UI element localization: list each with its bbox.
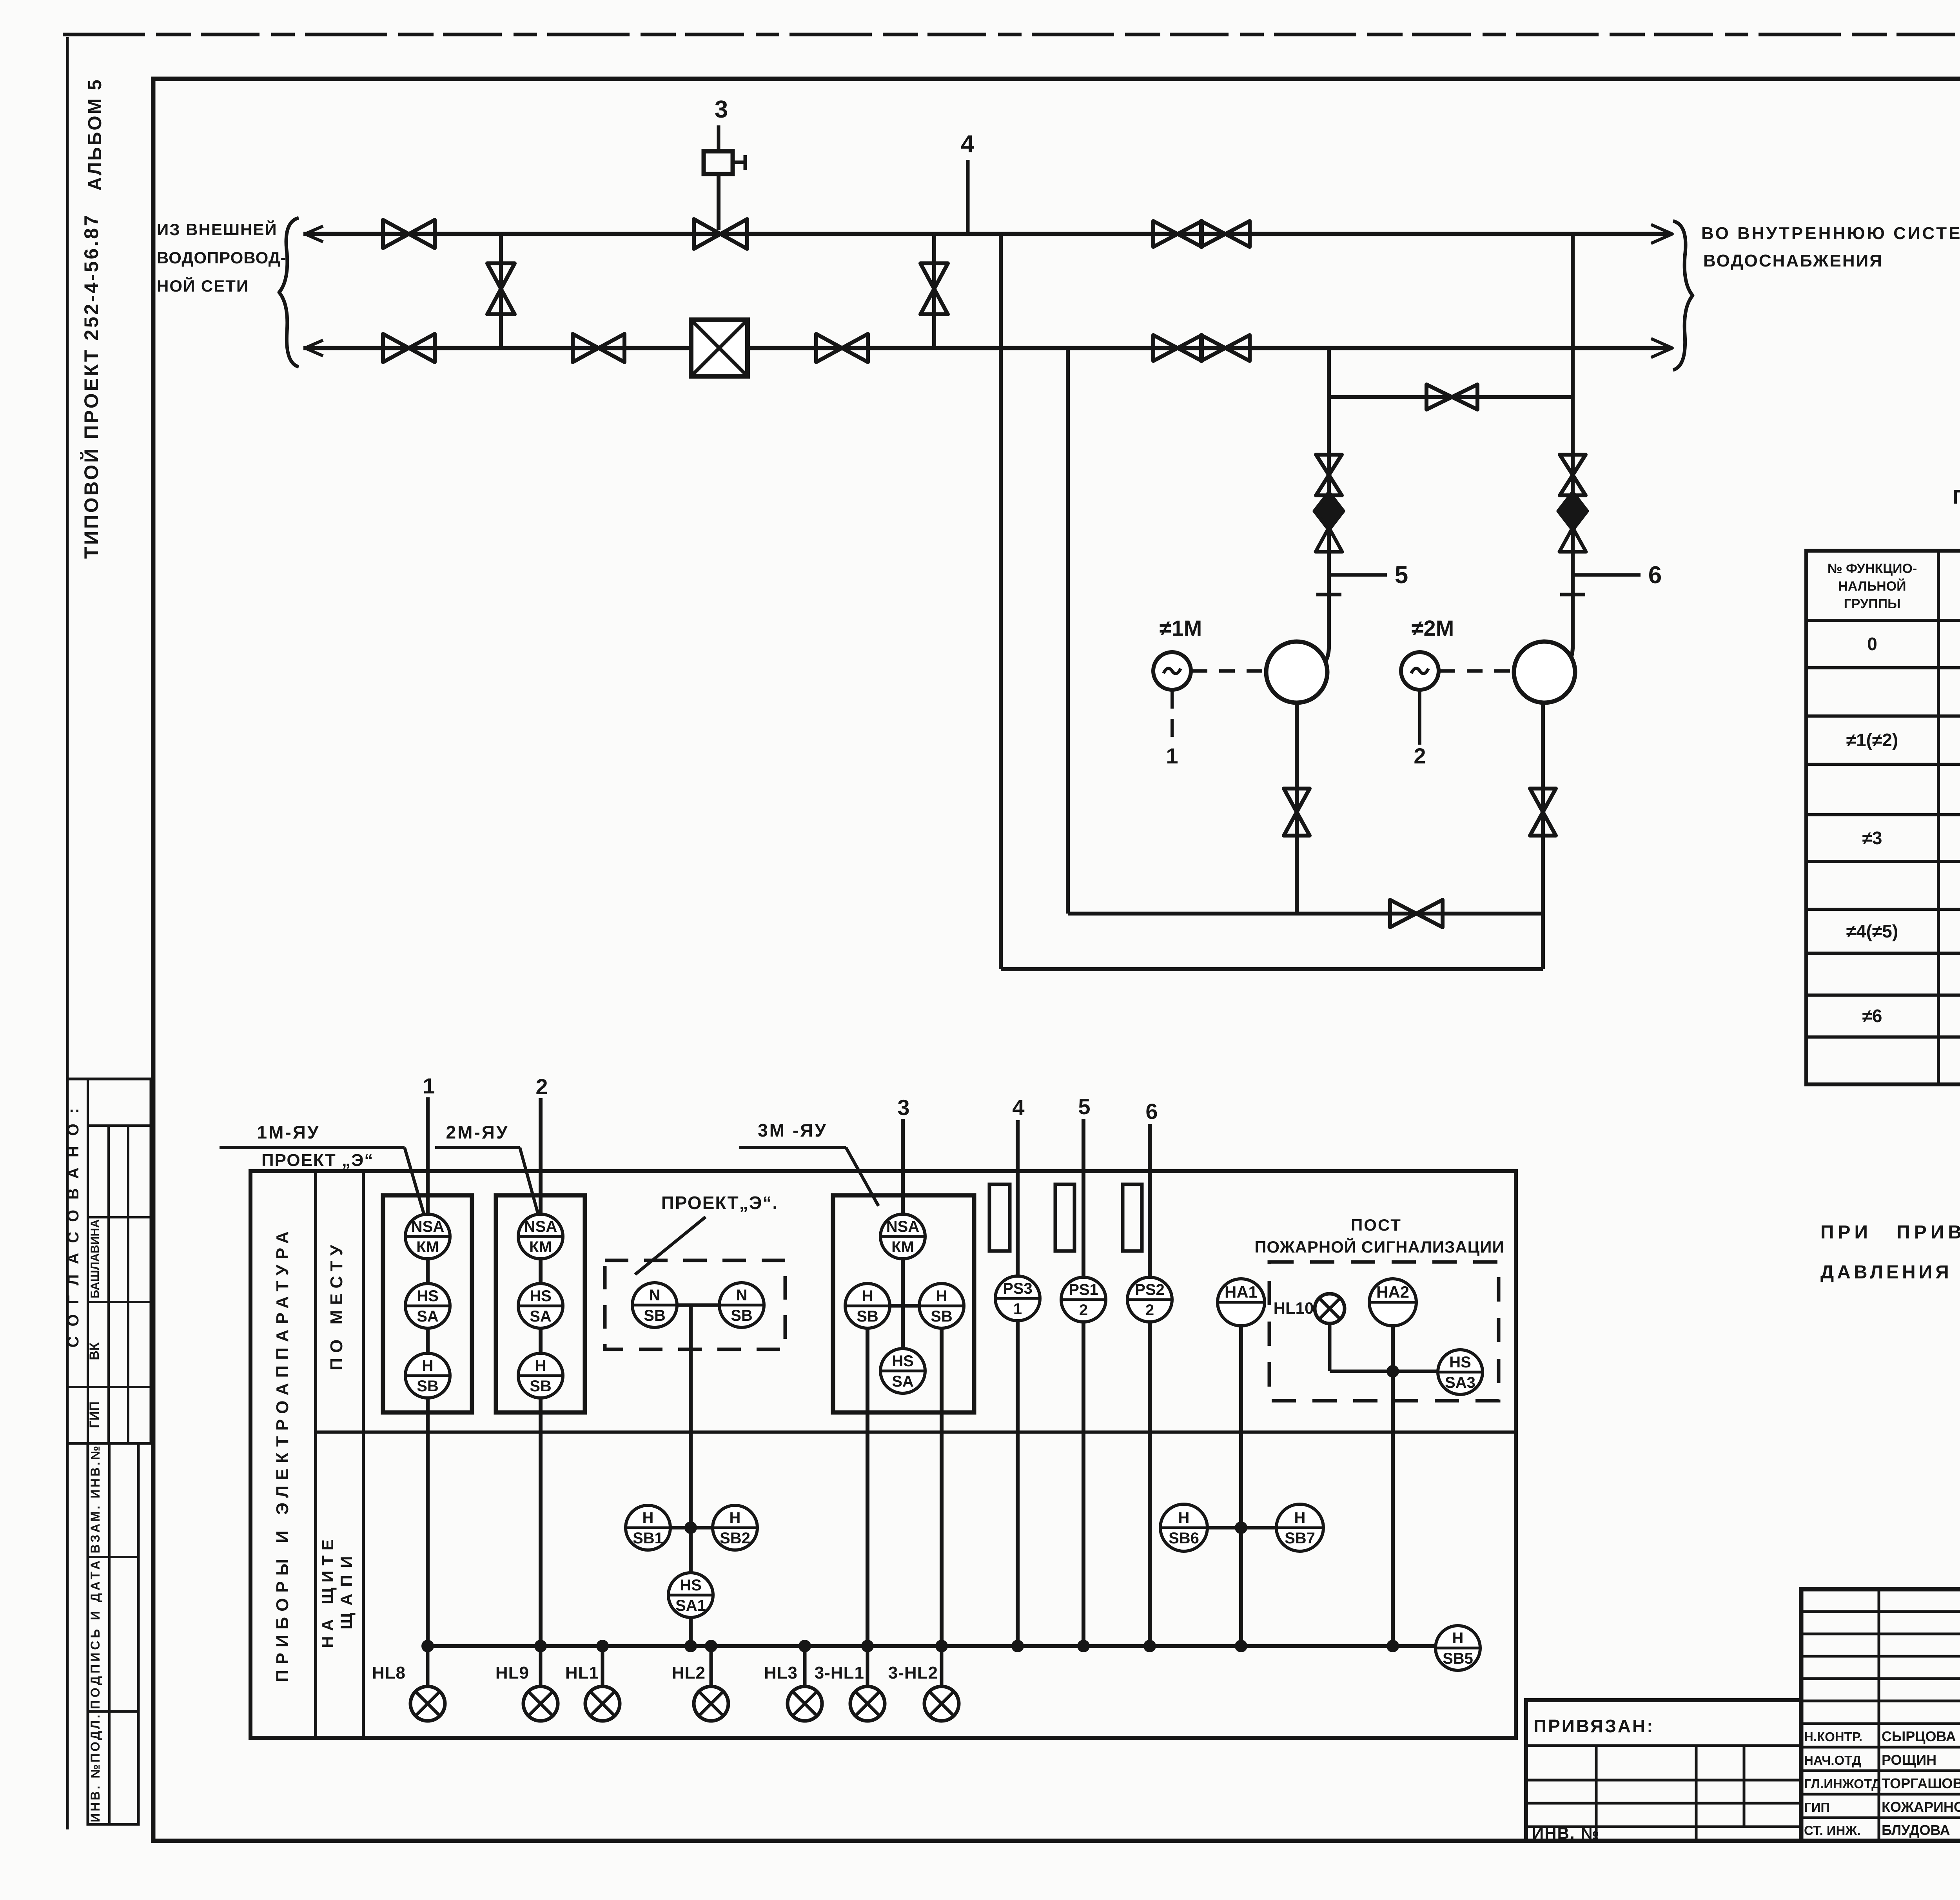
svg-text:Н: Н [936, 1287, 947, 1305]
instrument HSA KM box2 [518, 1214, 563, 1259]
svg-text:Н.КОНТР.: Н.КОНТР. [1804, 1730, 1862, 1744]
svg-text:SA1: SA1 [675, 1597, 706, 1614]
instrument HS SA box2 [518, 1284, 563, 1328]
instrument NSA KM box3 [880, 1214, 925, 1259]
svg-text:SB7: SB7 [1285, 1530, 1315, 1547]
svg-text:HL1: HL1 [565, 1663, 599, 1682]
pump1 inlet curve [1309, 647, 1329, 671]
wire line 6 [1148, 1124, 1152, 1646]
title narrow row 1 [1801, 1633, 1960, 1635]
title sig row line 1 [1801, 1769, 1960, 1772]
stamp col line b [107, 1126, 110, 1443]
junction dot bus x1379 [534, 1640, 547, 1652]
svg-text:HL8: HL8 [372, 1663, 406, 1682]
top pipe left arrow [305, 226, 323, 242]
svg-text:ИНВ. №ПОДЛ.: ИНВ. №ПОДЛ. [88, 1713, 102, 1822]
valve V5 bottom pipe after meter [816, 334, 868, 362]
wire motor2 to pump2 dashed [1439, 669, 1513, 673]
wire inner loop bottom horizontal [1068, 912, 1543, 916]
callout diagonal proekt E [635, 1217, 706, 1275]
functional table row line 4 [1806, 813, 1960, 816]
functional table row line 6 [1806, 908, 1960, 911]
junction dot bus x2213 [861, 1640, 874, 1652]
bypass wire between risers [1329, 395, 1573, 399]
functional table row line 8 [1806, 994, 1960, 997]
pump2 flange tick [1560, 593, 1585, 596]
svg-text:Н: Н [862, 1287, 873, 1305]
instrument table frame [250, 1171, 1516, 1738]
valve V12 pump1 outlet [1284, 789, 1310, 836]
svg-text:SA: SA [417, 1308, 439, 1325]
bottom pipe left arrow [305, 340, 323, 356]
wire 3-HL1 drop [866, 1328, 869, 1646]
svg-text:SB: SB [530, 1378, 552, 1395]
wire outer loop bottom horizontal [1001, 967, 1543, 971]
wire top pipe [303, 232, 1672, 236]
stamp row line 3 [88, 1301, 151, 1303]
svg-text:SB: SB [931, 1308, 953, 1325]
lamp HL9 [523, 1686, 558, 1721]
wire lamp riser HL1 [601, 1646, 604, 1686]
callout diagonal 3M [846, 1148, 878, 1206]
svg-text:1: 1 [423, 1073, 435, 1098]
svg-text:БЛУДОВА: БЛУДОВА [1882, 1822, 1950, 1838]
valve V13 on bypass [1426, 384, 1477, 410]
svg-text:SB: SB [644, 1307, 666, 1324]
svg-text:СТ. ИНЖ.: СТ. ИНЖ. [1804, 1823, 1860, 1838]
junction dot bus x2764 [1077, 1640, 1090, 1652]
lamp HL1 [585, 1686, 620, 1721]
svg-text:N: N [736, 1287, 748, 1304]
svg-text:ТИПОВОЙ ПРОЕКТ 252-4-56.87: ТИПОВОЙ ПРОЕКТ 252-4-56.87 [80, 213, 102, 559]
valve V14 pump2 outlet [1530, 789, 1556, 836]
stamp table 2 frame [88, 1443, 138, 1824]
wire outer loop vertical [999, 234, 1003, 969]
svg-text:КМ: КМ [416, 1238, 439, 1256]
valve V8 top pipe double right [1201, 221, 1250, 247]
wire between N SB buttons [677, 1304, 719, 1307]
svg-text:Н: Н [642, 1509, 654, 1527]
instrument H SB2 [713, 1505, 757, 1550]
wire pump2 outlet [1541, 703, 1545, 969]
right brace [1673, 221, 1693, 370]
svg-text:1: 1 [1013, 1300, 1022, 1318]
terminal strip line4 [989, 1184, 1010, 1251]
svg-text:ГЛ.ИНЖОТД: ГЛ.ИНЖОТД [1804, 1777, 1881, 1791]
svg-text:ПРОЕКТ „Э“: ПРОЕКТ „Э“ [261, 1151, 374, 1170]
svg-text:ВОДОПРОВОД-: ВОДОПРОВОД- [157, 248, 287, 267]
valve V1 top pipe inlet [383, 220, 435, 248]
wire HA1 drop [1239, 1326, 1243, 1646]
pump2 inlet curve [1553, 647, 1573, 671]
callout underline 2M [435, 1146, 520, 1149]
valve V11 on inner bottom horizontal [1390, 900, 1443, 927]
svg-text:БАШЛАВИНА: БАШЛАВИНА [89, 1219, 102, 1298]
svg-text:ГИП: ГИП [87, 1401, 102, 1428]
wire line 5 [1082, 1119, 1085, 1646]
svg-text:SA3: SA3 [1445, 1374, 1475, 1391]
valve V9 bottom pipe double left [1153, 335, 1202, 361]
wire motor1 to pump1 dashed [1192, 669, 1265, 673]
instrument H SB box1 [405, 1353, 450, 1398]
svg-text:6: 6 [1145, 1099, 1158, 1124]
instrument H SB box2 [518, 1353, 563, 1398]
svg-text:N: N [649, 1287, 661, 1304]
sheet top edge dashed line [63, 33, 1960, 36]
svg-text:ПРИБОРЫ И ЭЛЕКТРОАППАРАТУРА: ПРИБОРЫ И ЭЛЕКТРОАППАРАТУРА [273, 1226, 292, 1682]
svg-text:ГРУППЫ: ГРУППЫ [1844, 596, 1901, 611]
junction dot bus x1537 [596, 1640, 609, 1652]
svg-text:НАЧ.ОТД: НАЧ.ОТД [1804, 1753, 1861, 1768]
svg-text:HL2: HL2 [672, 1663, 706, 1682]
node 6 callout line [1573, 573, 1641, 577]
stamp col line c [127, 1126, 129, 1443]
junction dot bus x2596 [1011, 1640, 1024, 1652]
wire between SB1 SB2 [670, 1526, 713, 1530]
valve V10 bottom pipe double right [1201, 335, 1250, 361]
svg-text:ТОРГАШОВ: ТОРГАШОВ [1882, 1775, 1960, 1791]
svg-text:NSA: NSA [411, 1218, 444, 1235]
wire motor2 stub [1418, 691, 1421, 745]
instrument table col line 2 [362, 1171, 365, 1738]
svg-text:SB5: SB5 [1443, 1650, 1473, 1667]
svg-text:РОЩИН: РОЩИН [1882, 1752, 1936, 1768]
instrument HA2 [1369, 1279, 1416, 1326]
svg-text:КМ: КМ [529, 1238, 552, 1256]
valve V7 top pipe double left [1153, 221, 1202, 247]
lamp 3-НL1 [850, 1686, 885, 1721]
title sig row line 2 [1801, 1793, 1960, 1796]
lamp 3-НL2 [924, 1686, 959, 1721]
privyazan col a [1595, 1746, 1598, 1841]
svg-text:3: 3 [897, 1095, 909, 1120]
junction dot SA1 SB pair [684, 1521, 697, 1534]
instrument H SB5 at bus end [1436, 1626, 1480, 1670]
svg-text:HS: HS [892, 1352, 914, 1370]
instrument HS SA3 [1438, 1350, 1483, 1394]
svg-text:PS2: PS2 [1135, 1281, 1165, 1298]
lamp HL2 [694, 1686, 728, 1721]
dashed box fire alarm post [1269, 1262, 1499, 1401]
svg-text:≠1(≠2): ≠1(≠2) [1846, 730, 1898, 750]
instrument PS3 1 [995, 1276, 1040, 1321]
left brace [279, 218, 299, 367]
svg-text:SB: SB [857, 1308, 878, 1325]
callout diagonal 1M [405, 1148, 425, 1219]
svg-text:HS: HS [680, 1577, 702, 1594]
valve V6 on riser B [920, 263, 948, 314]
wire H SB pair box3 [890, 1304, 919, 1308]
junction dot bus x2402 [935, 1640, 948, 1652]
stamp row line 4 [67, 1386, 151, 1388]
junction dot HA2 line [1387, 1365, 1399, 1378]
valve stack pump1 cone [1316, 528, 1342, 552]
svg-text:2: 2 [1079, 1302, 1088, 1319]
svg-text:≠6: ≠6 [1862, 1006, 1882, 1026]
water meter [691, 320, 748, 376]
svg-text:HS: HS [1449, 1354, 1471, 1371]
motor 2M circle [1401, 652, 1439, 690]
svg-text:НА ЩИТЕ: НА ЩИТЕ [318, 1534, 337, 1648]
svg-text:NSA: NSA [886, 1218, 919, 1235]
svg-text:≠4(≠5): ≠4(≠5) [1846, 921, 1898, 941]
dashed box proekt E [605, 1260, 785, 1349]
svg-text:HS: HS [417, 1287, 439, 1305]
svg-text:≠2М: ≠2М [1412, 616, 1454, 640]
title narrow row 0 [1801, 1610, 1960, 1613]
svg-text:1: 1 [1166, 743, 1178, 768]
junction dot bus x3166 [1235, 1640, 1247, 1652]
wire 3-HL2 drop [940, 1328, 944, 1646]
valve stack pump2 check diamond [1558, 492, 1587, 530]
svg-text:Н: Н [1452, 1630, 1464, 1647]
svg-text:КОЖАРИНОВА: КОЖАРИНОВА [1882, 1799, 1960, 1815]
instrument HS SA box1 [405, 1284, 450, 1328]
instrument H SB box3 right [919, 1284, 964, 1328]
terminal strip line6 [1123, 1184, 1142, 1251]
svg-text:АЛЬБОМ 5: АЛЬБОМ 5 [85, 78, 105, 190]
svg-text:5: 5 [1078, 1094, 1090, 1119]
svg-text:Н: Н [422, 1357, 434, 1374]
svg-text:ИНВ. №: ИНВ. № [1532, 1824, 1600, 1842]
svg-text:3М -ЯУ: 3М -ЯУ [758, 1120, 828, 1140]
bottom pipe right arrow [1651, 339, 1672, 357]
svg-text:Н: Н [730, 1509, 741, 1527]
svg-text:SA: SA [530, 1308, 552, 1325]
privyazan row line 3 [1526, 1802, 1801, 1805]
wire motor1 stub [1171, 691, 1174, 745]
svg-text:3-НL1: 3-НL1 [815, 1663, 864, 1682]
wire pump1 outlet [1295, 703, 1299, 914]
wire lamp riser HL2 [710, 1646, 713, 1686]
svg-text:НОЙ СЕТИ: НОЙ СЕТИ [157, 276, 249, 295]
svg-text:№ ФУНКЦИО-: № ФУНКЦИО- [1828, 561, 1917, 576]
instrument table row divider [316, 1430, 1516, 1434]
svg-text:PS3: PS3 [1003, 1280, 1033, 1297]
svg-text:4: 4 [1012, 1095, 1024, 1120]
functional table row line 3 [1806, 763, 1960, 766]
junction dot bus x3553 [1387, 1640, 1399, 1652]
instrument H SB7 [1276, 1504, 1323, 1551]
svg-text:SB2: SB2 [720, 1530, 750, 1547]
functional table row line 0 [1806, 619, 1960, 622]
svg-text:ИЗ ВНЕШНЕЙ: ИЗ ВНЕШНЕЙ [157, 220, 278, 239]
wire lamp riser HL9 [539, 1646, 543, 1686]
valve stack pump1 gate [1316, 455, 1342, 495]
stamp col line a [87, 1079, 89, 1443]
privyazan row line 1 [1526, 1744, 1801, 1747]
wire lamp riser HL8 [426, 1646, 430, 1686]
title block outer frame [1801, 1589, 1960, 1841]
functional table row line 7 [1806, 952, 1960, 955]
terminal strip line5 [1055, 1184, 1074, 1251]
wire line 4 [1016, 1120, 1020, 1646]
svg-text:ГИП: ГИП [1804, 1800, 1830, 1815]
instrument HA1 [1218, 1279, 1265, 1326]
node 5 callout line [1329, 573, 1387, 577]
svg-text:HL9: HL9 [495, 1663, 529, 1682]
title sig row line 3 [1801, 1817, 1960, 1819]
svg-text:HA1: HA1 [1225, 1283, 1258, 1301]
valve stack pump1 check diamond [1314, 492, 1343, 530]
instrument PS1 2 [1061, 1277, 1106, 1322]
svg-text:HS: HS [530, 1287, 552, 1305]
svg-text:4: 4 [961, 131, 975, 158]
functional table row line 9 [1806, 1035, 1960, 1039]
svg-text:ВО ВНУТРЕННЮЮ СИСТЕМУ: ВО ВНУТРЕННЮЮ СИСТЕМУ [1701, 224, 1960, 243]
svg-text:ВОДОСНАБЖЕНИЯ: ВОДОСНАБЖЕНИЯ [1703, 251, 1883, 270]
outer margin left line [66, 37, 69, 1829]
svg-text:2: 2 [1145, 1302, 1154, 1319]
instrument PS2 2 [1127, 1277, 1172, 1322]
panel box 2M [496, 1195, 585, 1412]
svg-text:ЩАПИ: ЩАПИ [337, 1549, 356, 1630]
instrument H SB6 [1160, 1504, 1207, 1551]
functional table col line 1 [1937, 551, 1940, 1084]
wire pump1 supply riser [1327, 348, 1331, 649]
stamp table soglasovano frame [67, 1079, 151, 1443]
svg-text:ПОЖАРНОЙ СИГНАЛИЗАЦИИ: ПОЖАРНОЙ СИГНАЛИЗАЦИИ [1254, 1237, 1504, 1256]
svg-text:ДАВЛЕНИЯ ДЛЯ ПРИБОРА PS1, PS2,: ДАВЛЕНИЯ ДЛЯ ПРИБОРА PS1, PS2, PS3. [1820, 1262, 1960, 1283]
svg-text:NSA: NSA [524, 1218, 557, 1235]
valve V3 on riser A [487, 263, 515, 314]
svg-text:SB: SB [417, 1378, 439, 1395]
title col line names [1878, 1589, 1880, 1841]
svg-text:3: 3 [715, 96, 728, 123]
instrument N SB right [719, 1283, 764, 1327]
svg-text:1М-ЯУ: 1М-ЯУ [257, 1122, 320, 1142]
wire crossover riser A [499, 234, 503, 348]
privyazan col b [1695, 1746, 1698, 1841]
wire panel bus [428, 1644, 1436, 1648]
instrument H SB1 [626, 1505, 670, 1550]
svg-text:HA2: HA2 [1376, 1283, 1409, 1301]
privyazan col c [1743, 1746, 1746, 1827]
callout underline 1M [220, 1146, 405, 1149]
svg-text:2: 2 [535, 1074, 548, 1099]
svg-text:ПРИ ПРИВЯЗКЕ ПРОЕКТА ПРОСТАВИТ: ПРИ ПРИВЯЗКЕ ПРОЕКТА ПРОСТАВИТЬ ВЕЛИЧИНУ [1820, 1222, 1960, 1243]
pump 2M body [1514, 642, 1575, 703]
junction dot HA1 SB pair [1235, 1521, 1247, 1534]
wire line 1 [426, 1097, 430, 1646]
instrument H SB box3 left [845, 1284, 890, 1328]
node 3 callout line [717, 125, 720, 150]
wire inner loop vertical [1066, 348, 1070, 914]
instrument HS SA box3 [880, 1349, 925, 1393]
instrument HSA KM box1 [405, 1214, 450, 1259]
svg-text:Н: Н [535, 1357, 546, 1374]
svg-text:ПОСТ: ПОСТ [1351, 1216, 1402, 1234]
privyazan row line 4 [1526, 1826, 1801, 1828]
svg-text:ПРИВЯЗАН:: ПРИВЯЗАН: [1534, 1716, 1655, 1736]
svg-text:5: 5 [1395, 562, 1408, 589]
electric valve 3M on top pipe [694, 219, 747, 249]
motor 1M circle [1153, 652, 1191, 690]
wire pump2 supply riser [1571, 234, 1575, 649]
svg-text:НАЛЬНОЙ: НАЛЬНОЙ [1838, 578, 1906, 594]
callout underline 3M [739, 1146, 846, 1149]
svg-text:ПЕРЕЧЕНЬ ФУНКЦИОНАЛЬНЫХ ГРУПП: ПЕРЕЧЕНЬ ФУНКЦИОНАЛЬНЫХ ГРУПП [1953, 486, 1960, 508]
lamp HL8 [410, 1686, 445, 1721]
stamp2 row line 2 [88, 1710, 138, 1713]
svg-text:ВЗАМ. ИНВ.№: ВЗАМ. ИНВ.№ [88, 1444, 102, 1553]
svg-text:≠1М: ≠1М [1160, 616, 1202, 640]
wire bottom pipe [303, 346, 1672, 350]
stamp2 col line [108, 1443, 111, 1824]
svg-text:ПО МЕСТУ: ПО МЕСТУ [327, 1240, 346, 1370]
panel box 3M [833, 1195, 974, 1412]
svg-text:ПОДПИСЬ И ДАТА: ПОДПИСЬ И ДАТА [88, 1558, 102, 1709]
node 4 callout line [966, 160, 970, 234]
wire HL10 drop [1328, 1323, 1332, 1371]
wire HL10 to HA2 junction [1330, 1370, 1438, 1373]
wire between SB6 SB7 [1207, 1526, 1276, 1530]
stamp row line 1 [88, 1124, 151, 1127]
wire line 2 [539, 1098, 543, 1646]
valve V2 bottom pipe inlet [383, 334, 435, 362]
svg-text:HL10: HL10 [1274, 1299, 1314, 1317]
svg-text:3-НL2: 3-НL2 [888, 1663, 938, 1682]
svg-text:СЫРЦОВА: СЫРЦОВА [1882, 1728, 1956, 1744]
svg-text:≠3: ≠3 [1862, 828, 1882, 848]
lamp HL10 [1315, 1294, 1345, 1323]
functional table frame [1806, 551, 1960, 1084]
svg-text:Н: Н [1294, 1509, 1306, 1527]
junction dot bus x2053 [799, 1640, 811, 1652]
svg-text:ВК: ВК [87, 1342, 102, 1360]
junction dot bus x1091 [421, 1640, 434, 1652]
junction dot bus x2933 [1143, 1640, 1156, 1652]
functional table row line 1 [1806, 666, 1960, 669]
svg-text:КМ: КМ [891, 1238, 914, 1256]
stamp2 row line 1 [88, 1556, 138, 1558]
svg-text:СОГЛАСОВАНО:: СОГЛАСОВАНО: [65, 1098, 82, 1348]
instrument table col line 1 [314, 1171, 317, 1738]
instrument HS SA1 [668, 1573, 713, 1617]
junction dot bus x1762 [684, 1640, 697, 1652]
wire line 3 [901, 1119, 905, 1371]
valve 3M actuator lever [733, 161, 745, 164]
title narrow row 2 [1801, 1655, 1960, 1658]
title narrow row 4 [1801, 1700, 1960, 1702]
lamp HL3 [788, 1686, 822, 1721]
valve stack pump2 gate [1560, 455, 1586, 495]
svg-text:Н: Н [1178, 1509, 1190, 1527]
valve 3M actuator box [704, 151, 733, 174]
privyazan box frame [1526, 1700, 1801, 1841]
svg-text:PS1: PS1 [1069, 1281, 1098, 1298]
svg-text:0: 0 [1867, 634, 1877, 654]
wire lamp riser HL3 [803, 1646, 807, 1686]
wire crossover riser B [932, 234, 936, 348]
svg-text:SB6: SB6 [1169, 1530, 1199, 1547]
privyazan row line 2 [1526, 1779, 1801, 1782]
wire lamp riser 3-НL2 [940, 1646, 944, 1686]
title narrow row 5 [1801, 1722, 1960, 1725]
functional table row line 5 [1806, 860, 1960, 863]
svg-text:6: 6 [1648, 562, 1662, 589]
functional table row line 2 [1806, 714, 1960, 718]
top pipe right arrow [1651, 225, 1672, 243]
svg-text:HL3: HL3 [764, 1663, 798, 1682]
pump1 flange tick [1316, 593, 1341, 596]
title narrow row 3 [1801, 1677, 1960, 1680]
valve V4 bottom pipe [573, 334, 624, 362]
title sig row line 0 [1801, 1746, 1960, 1749]
callout diagonal 2M [520, 1148, 539, 1219]
stamp row line 2 [88, 1216, 151, 1218]
wire lamp riser 3-НL1 [866, 1646, 869, 1686]
